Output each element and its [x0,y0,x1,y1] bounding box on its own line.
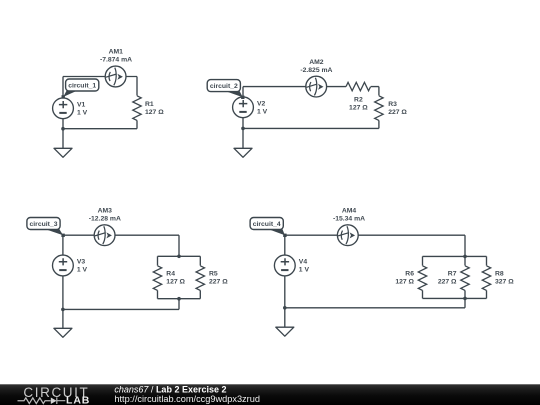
svg-text:LAB: LAB [66,395,90,405]
resistor R3 [375,96,383,121]
wire [62,235,64,309]
wire [178,299,180,310]
net flag circuit_1 [62,79,99,99]
svg-text:circuit_3: circuit_3 [30,221,58,228]
wire gap for R1 [131,96,143,121]
wire [63,76,137,78]
svg-text:http://circuitlab.com/ccg9wdpx: http://circuitlab.com/ccg9wdpx3zrud [114,394,260,404]
wire [486,256,488,298]
svg-text:127 Ω: 127 Ω [395,279,414,286]
wire [63,128,137,130]
wire [199,256,201,298]
wire [136,77,138,129]
net flag circuit_2 [207,80,244,99]
resistor R8 [482,266,490,291]
resistor R1 [133,96,141,121]
ammeter AM3 [94,225,115,246]
svg-text:227 Ω: 227 Ω [209,279,228,286]
svg-text:-12.28 mA: -12.28 mA [89,215,121,222]
wire gap for R7 [459,266,471,291]
svg-text:circuit_2: circuit_2 [210,83,238,90]
voltage source V4 [274,255,295,276]
wire [285,234,465,236]
wire [242,128,244,148]
wire [464,256,466,298]
svg-text:circuit_4: circuit_4 [253,221,281,228]
svg-text:R8: R8 [495,270,504,277]
resistor R7 [461,266,469,291]
ground [54,328,72,337]
svg-text:R7: R7 [448,270,457,277]
wire [243,127,379,129]
node junction [241,127,245,131]
voltage source V1 [53,98,74,119]
svg-text:circuit_1: circuit_1 [68,83,96,90]
svg-text:V1: V1 [77,101,86,108]
footer background bar [0,384,540,405]
svg-text:V4: V4 [299,259,308,266]
logo diode [51,398,57,405]
svg-text:AM3: AM3 [98,207,113,214]
wire [62,129,64,149]
wire gap for R3 [373,96,385,121]
wire [422,256,424,298]
svg-text:-7.874 mA: -7.874 mA [100,57,132,64]
wire [63,234,179,236]
net flag circuit_4 [250,218,287,238]
wire [158,298,201,300]
wire [242,87,244,129]
wire gap for R5 [194,266,206,291]
resistor R4 [153,266,161,291]
wire [178,235,180,256]
wire gap for R2 [346,81,371,93]
wire [284,235,286,308]
ammeter AM2 [306,76,327,97]
wire [62,309,64,328]
resistor R6 [418,266,426,291]
svg-text:AM4: AM4 [342,207,357,214]
svg-text:-2.825 mA: -2.825 mA [300,67,332,74]
ground [234,148,252,157]
ground [54,148,72,157]
svg-text:1 V: 1 V [299,267,310,274]
node junction [463,255,467,259]
logo resistor zigzag [18,398,51,404]
svg-text:227 Ω: 227 Ω [438,279,457,286]
svg-text:327 Ω: 327 Ω [495,279,514,286]
wire [62,77,64,129]
wire gap for R4 [152,266,164,291]
svg-text:127 Ω: 127 Ω [349,104,368,111]
ground [276,327,294,336]
node junction [177,254,181,258]
wire [284,308,286,327]
svg-text:R4: R4 [166,270,175,277]
svg-text:R3: R3 [388,101,397,108]
svg-text:1 V: 1 V [77,267,88,274]
svg-text:R5: R5 [209,270,218,277]
svg-text:1 V: 1 V [77,109,88,116]
wire [423,297,487,299]
voltage source V3 [53,255,74,276]
node junction [283,306,287,310]
svg-text:R6: R6 [405,270,414,277]
wire [285,307,465,309]
net flag circuit_3 [27,218,65,238]
voltage source V2 [233,97,254,118]
resistor R2 [346,82,371,90]
wire [157,256,159,298]
wire gap for R6 [417,266,429,291]
node junction [61,127,65,131]
wire [243,86,379,88]
svg-text:AM1: AM1 [109,49,124,56]
wire [464,235,466,256]
wire [378,87,380,129]
node junction [177,297,181,301]
wire [423,255,487,257]
node junction [61,308,65,312]
wire [464,298,466,307]
svg-text:AM2: AM2 [309,59,324,66]
svg-text:-15.34 mA: -15.34 mA [333,215,365,222]
wire gap for R8 [481,266,493,291]
svg-text:127 Ω: 127 Ω [166,279,185,286]
node junction [463,297,467,301]
resistor R5 [196,266,204,291]
ammeter AM1 [105,66,126,87]
svg-text:127 Ω: 127 Ω [145,109,164,116]
svg-text:227 Ω: 227 Ω [388,109,407,116]
ammeter AM4 [337,225,358,246]
svg-text:V3: V3 [77,259,86,266]
svg-text:R2: R2 [354,96,363,103]
svg-text:R1: R1 [145,101,154,108]
svg-text:V2: V2 [257,100,266,107]
wire [158,255,201,257]
wire [63,308,179,310]
svg-text:1 V: 1 V [257,108,268,115]
